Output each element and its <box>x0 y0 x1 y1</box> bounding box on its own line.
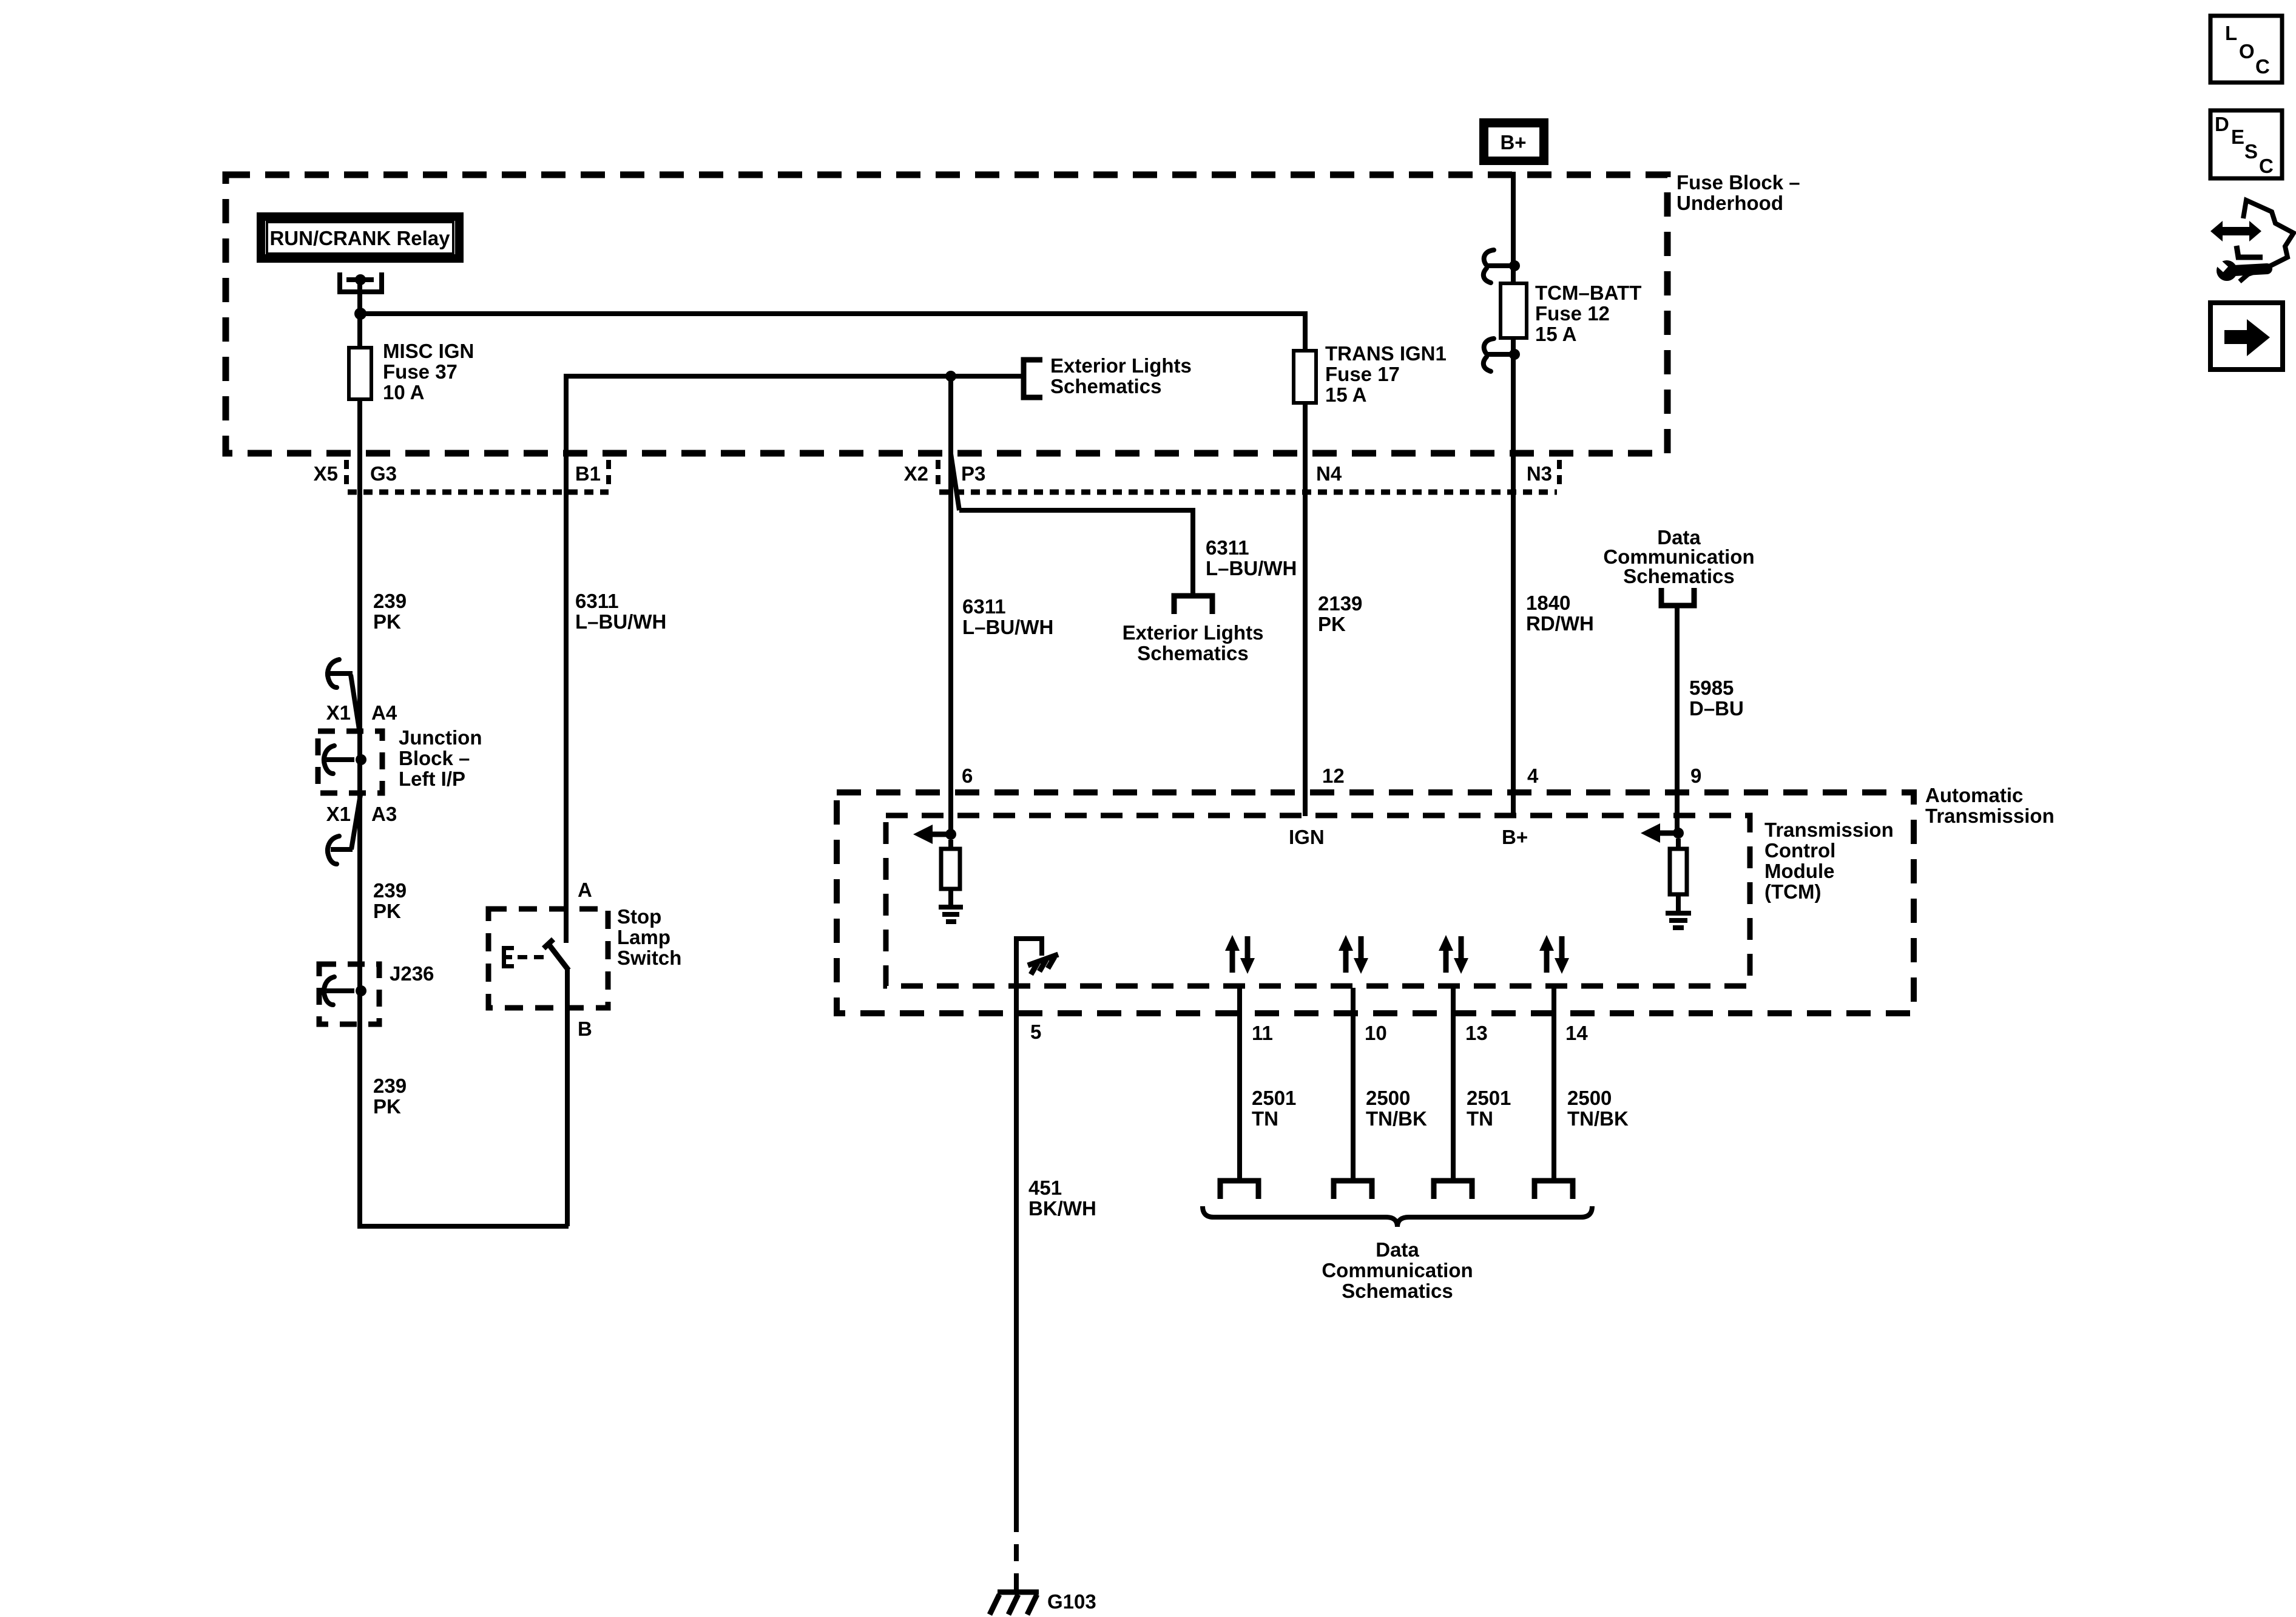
svg-text:6: 6 <box>962 765 973 787</box>
svg-text:4: 4 <box>1527 765 1539 787</box>
svg-text:TN: TN <box>1252 1107 1278 1130</box>
label Exterior Lights Schematics (top) <box>1050 354 1192 397</box>
internal arrow pin 6 <box>913 825 951 844</box>
node dot junction block <box>356 754 366 765</box>
wire data pin 11 <box>1237 988 1242 1178</box>
svg-text:Communication: Communication <box>1322 1259 1473 1281</box>
svg-text:B+: B+ <box>1502 826 1528 848</box>
svg-text:15 A: 15 A <box>1535 323 1576 345</box>
node dot J236 <box>356 985 366 996</box>
svg-text:Left I/P: Left I/P <box>399 768 465 790</box>
icon LOC box <box>2210 16 2282 83</box>
svg-text:Data: Data <box>1376 1238 1419 1261</box>
svg-text:G103: G103 <box>1047 1590 1096 1613</box>
svg-text:10: 10 <box>1365 1022 1387 1044</box>
svg-text:Module: Module <box>1764 860 1834 882</box>
svg-text:P3: P3 <box>961 462 985 485</box>
label 2500 TN/BK (pin 10) <box>1366 1087 1427 1130</box>
svg-text:239: 239 <box>373 879 407 902</box>
svg-text:PK: PK <box>1318 613 1346 635</box>
wire B+ down to connector <box>1511 172 1516 266</box>
brace data communication <box>1203 1206 1592 1227</box>
svg-text:C: C <box>2259 155 2274 177</box>
svg-text:N4: N4 <box>1316 462 1342 485</box>
Fuse Block - Underhood dashed box <box>226 175 1667 453</box>
label Automatic Transmission <box>1925 784 2055 827</box>
switch S1 stop lamp dashed box <box>488 909 608 1008</box>
svg-text:X1: X1 <box>326 701 351 724</box>
svg-text:2139: 2139 <box>1318 592 1362 615</box>
wire 1840 RD/WH down to TCM pin 4 <box>1511 354 1516 816</box>
label Data Communication Schematics (top) <box>1603 526 1754 587</box>
node dot pin 6 <box>945 829 956 840</box>
svg-text:Fuse Block –: Fuse Block – <box>1676 171 1800 194</box>
svg-text:12: 12 <box>1322 765 1345 787</box>
svg-text:Stop: Stop <box>617 905 661 928</box>
svg-text:Schematics: Schematics <box>1050 375 1161 397</box>
ground G103 chassis symbol <box>990 1592 1039 1615</box>
svg-text:(TCM): (TCM) <box>1764 880 1821 903</box>
svg-text:Junction: Junction <box>399 726 482 749</box>
svg-text:BK/WH: BK/WH <box>1028 1197 1096 1220</box>
ground (pin 9 internal) <box>1666 913 1691 928</box>
node: relay branch junction <box>354 308 366 320</box>
bidirectional arrows pin <box>1439 935 1468 974</box>
label 6311 L-BU/WH (branch) <box>1206 536 1297 579</box>
svg-text:Switch: Switch <box>617 947 681 969</box>
svg-text:A3: A3 <box>371 803 397 825</box>
wire data pin 14 <box>1551 988 1556 1178</box>
wire relay stem <box>357 280 362 314</box>
svg-text:PK: PK <box>373 900 401 922</box>
label fuse 37 <box>383 340 474 403</box>
fuse F37 MISC IGN <box>349 348 371 399</box>
svg-text:2500: 2500 <box>1567 1087 1612 1109</box>
tick X2 <box>936 460 940 489</box>
wire fuse 12 to lower connector <box>1511 338 1516 354</box>
label 2139 PK <box>1318 592 1362 635</box>
tick N3 <box>1557 460 1562 489</box>
node dot pin 9 <box>1673 828 1684 839</box>
junction block dashed box <box>318 731 382 793</box>
svg-text:TN: TN <box>1467 1107 1493 1130</box>
bidirectional arrows pin <box>1339 935 1368 974</box>
label 6311 L-BU/WH (B1 wire) <box>575 590 666 633</box>
splice J236 dashed box <box>319 964 379 1024</box>
terminal pin 11 <box>1220 1181 1258 1199</box>
svg-text:Fuse 12: Fuse 12 <box>1535 302 1610 325</box>
svg-text:L–BU/WH: L–BU/WH <box>962 616 1053 638</box>
svg-text:RUN/CRANK Relay: RUN/CRANK Relay <box>269 227 450 249</box>
svg-text:S: S <box>2244 140 2258 163</box>
svg-text:L–BU/WH: L–BU/WH <box>1206 557 1297 579</box>
wire data pin 10 <box>1351 988 1356 1178</box>
fuse F12 TCM-BATT <box>1501 283 1527 338</box>
bracket to Exterior Lights Schematics <box>1024 360 1042 397</box>
svg-text:A: A <box>578 879 592 901</box>
svg-text:RD/WH: RD/WH <box>1526 612 1594 635</box>
svg-text:G3: G3 <box>370 462 397 485</box>
connector X1-A3 <box>328 795 360 864</box>
svg-text:Lamp: Lamp <box>617 926 670 948</box>
terminal pin 10 <box>1334 1181 1372 1199</box>
internal arrow pin 9 <box>1641 823 1678 843</box>
label Stop Lamp Switch <box>617 905 681 969</box>
svg-text:Fuse 37: Fuse 37 <box>383 360 458 383</box>
svg-text:239: 239 <box>373 1075 407 1097</box>
wire 6311 down to TCM pin 6 <box>948 376 953 834</box>
svg-text:E: E <box>2231 126 2244 148</box>
svg-text:239: 239 <box>373 590 407 612</box>
svg-text:Transmission: Transmission <box>1925 805 2055 827</box>
svg-text:Schematics: Schematics <box>1623 565 1734 587</box>
svg-text:L–BU/WH: L–BU/WH <box>575 610 666 633</box>
svg-text:10 A: 10 A <box>383 381 424 403</box>
wire 451 BK/WH pin 5 <box>1014 988 1019 1515</box>
svg-text:O: O <box>2239 40 2255 62</box>
svg-text:J236: J236 <box>390 962 434 985</box>
automatic transmission dashed box <box>837 792 1914 1013</box>
svg-text:C: C <box>2255 55 2270 78</box>
wire to fuse 12 <box>1511 266 1516 283</box>
wire 2139 PK from fuse 17 to TCM pin 12 <box>1303 403 1308 816</box>
svg-text:PK: PK <box>373 610 401 633</box>
tick X5 <box>344 460 349 489</box>
terminal pin 14 <box>1535 1181 1573 1199</box>
svg-text:X5: X5 <box>314 462 338 485</box>
svg-text:A4: A4 <box>371 701 397 724</box>
wire data pin 13 <box>1451 988 1456 1178</box>
label 451 BK/WH <box>1028 1176 1096 1220</box>
label 5985 D-BU <box>1689 677 1744 720</box>
svg-text:6311: 6311 <box>1206 536 1249 559</box>
wire relay to TRANS IGN1 fuse <box>360 314 1305 351</box>
Fuse Block - Underhood label <box>1676 171 1800 214</box>
svg-text:Exterior Lights: Exterior Lights <box>1050 354 1192 377</box>
label Exterior Lights Schematics (bottom) <box>1123 621 1264 664</box>
TCM dashed box <box>886 815 1750 986</box>
tick B1 <box>606 460 611 489</box>
label Data Communication Schematics (bottom) <box>1322 1238 1473 1302</box>
chassis ground stub (pin 5 internal) <box>1016 939 1042 988</box>
svg-text:TN/BK: TN/BK <box>1567 1107 1629 1130</box>
svg-text:X2: X2 <box>904 462 928 485</box>
label 239 PK (3) <box>373 1075 407 1118</box>
svg-text:MISC IGN: MISC IGN <box>383 340 474 362</box>
power symbol B+ box <box>1479 118 1548 165</box>
svg-text:TCM–BATT: TCM–BATT <box>1535 282 1641 304</box>
label 2500 TN/BK (pin 14) <box>1567 1087 1629 1130</box>
svg-text:B+: B+ <box>1500 131 1526 154</box>
svg-text:Underhood: Underhood <box>1676 192 1783 214</box>
label 2501 TN (pin 11) <box>1252 1087 1296 1130</box>
svg-text:D–BU: D–BU <box>1689 697 1744 720</box>
connector row line X5/G3/B1/X2/P3/N4/N3 <box>348 490 609 495</box>
svg-text:2501: 2501 <box>1252 1087 1296 1109</box>
terminal to exterior lights <box>1174 596 1212 614</box>
switch blade <box>544 939 569 970</box>
wire junction down to MISC IGN fuse <box>357 314 362 348</box>
label 239 PK (2) <box>373 879 407 922</box>
connector inside J236 <box>324 977 354 1005</box>
svg-text:Exterior Lights: Exterior Lights <box>1123 621 1264 644</box>
svg-text:2501: 2501 <box>1467 1087 1511 1109</box>
fuse F17 TRANS IGN1 <box>1294 351 1316 403</box>
svg-text:9: 9 <box>1690 765 1701 787</box>
relay output connector <box>340 272 382 292</box>
svg-text:TN/BK: TN/BK <box>1366 1107 1427 1130</box>
node dot on B1 horizontal <box>945 371 956 382</box>
bidirectional arrows pin <box>1225 935 1255 974</box>
label 239 PK (1) <box>373 590 407 633</box>
svg-text:Block –: Block – <box>399 747 470 769</box>
connector above TCM-BATT fuse <box>1484 250 1510 283</box>
wire 5985 D-BU to TCM pin 9 <box>1675 606 1680 833</box>
connector X1-A4 <box>328 660 359 729</box>
svg-text:Fuse 17: Fuse 17 <box>1325 363 1400 385</box>
svg-text:Schematics: Schematics <box>1137 642 1248 664</box>
node dot below fuse 12 <box>1509 349 1520 360</box>
svg-text:14: 14 <box>1565 1022 1588 1044</box>
label 6311 L-BU/WH (pin 6 wire) <box>962 595 1053 638</box>
label Junction Block Left I/P <box>399 726 482 790</box>
wire B1 up and across to exterior lights bracket <box>566 376 1024 943</box>
wire slant at P3 connector <box>951 454 959 510</box>
terminal pin 13 <box>1434 1181 1472 1199</box>
svg-text:N3: N3 <box>1527 462 1552 485</box>
chassis ground symbol internal <box>1028 954 1058 974</box>
wire dashed to G103 <box>1014 1515 1019 1595</box>
node dot above fuse 12 <box>1509 260 1520 271</box>
wire branch to exterior lights terminal <box>959 510 1193 596</box>
svg-text:PK: PK <box>373 1095 401 1118</box>
svg-text:15 A: 15 A <box>1325 383 1366 406</box>
svg-text:1840: 1840 <box>1526 592 1570 614</box>
connector inside junction block <box>324 746 354 774</box>
switch actuator E with dashes <box>502 946 544 968</box>
label fuse 17 <box>1325 342 1447 406</box>
icon hand with arrow and wrench <box>2210 200 2294 282</box>
icon DESC box <box>2210 110 2282 178</box>
svg-text:X1: X1 <box>326 803 351 825</box>
label 2501 TN (pin 13) <box>1467 1087 1511 1130</box>
svg-text:11: 11 <box>1252 1022 1273 1044</box>
svg-text:Control: Control <box>1764 839 1835 862</box>
svg-text:451: 451 <box>1028 1176 1062 1199</box>
node: relay pin dot <box>355 274 366 285</box>
svg-text:6311: 6311 <box>962 595 1006 618</box>
icon arrow box <box>2210 303 2283 370</box>
svg-text:L: L <box>2225 22 2237 44</box>
svg-text:6311: 6311 <box>575 590 619 612</box>
bidirectional arrows pin <box>1539 935 1569 974</box>
connector below TCM-BATT fuse <box>1484 339 1510 371</box>
svg-text:5985: 5985 <box>1689 677 1734 699</box>
resistor R2 (pin 9 pull) <box>1676 839 1681 849</box>
ground (pin 6 internal) <box>939 907 963 922</box>
label 1840 RD/WH <box>1526 592 1594 635</box>
wire bottom horizontal <box>357 1224 569 1229</box>
svg-text:TRANS IGN1: TRANS IGN1 <box>1325 342 1447 365</box>
svg-text:5: 5 <box>1030 1021 1041 1043</box>
svg-text:Automatic: Automatic <box>1925 784 2023 806</box>
svg-text:B: B <box>578 1018 592 1040</box>
label fuse 12 <box>1535 282 1641 345</box>
svg-text:13: 13 <box>1465 1022 1488 1044</box>
svg-text:Schematics: Schematics <box>1342 1280 1453 1302</box>
wire 239 PK from MISC IGN fuse down <box>357 399 362 1226</box>
svg-text:D: D <box>2215 113 2229 135</box>
resistor R1 (pin 6 pull) <box>948 840 953 849</box>
label Transmission Control Module (TCM) <box>1764 819 1894 903</box>
svg-text:2500: 2500 <box>1366 1087 1410 1109</box>
terminal from data communication <box>1661 588 1694 606</box>
svg-text:B1: B1 <box>575 462 601 485</box>
svg-text:IGN: IGN <box>1289 826 1325 848</box>
svg-text:Transmission: Transmission <box>1764 819 1894 841</box>
wire B down to bottom loop <box>565 969 570 1226</box>
relay U1 RUN/CRANK Relay box <box>261 217 459 258</box>
